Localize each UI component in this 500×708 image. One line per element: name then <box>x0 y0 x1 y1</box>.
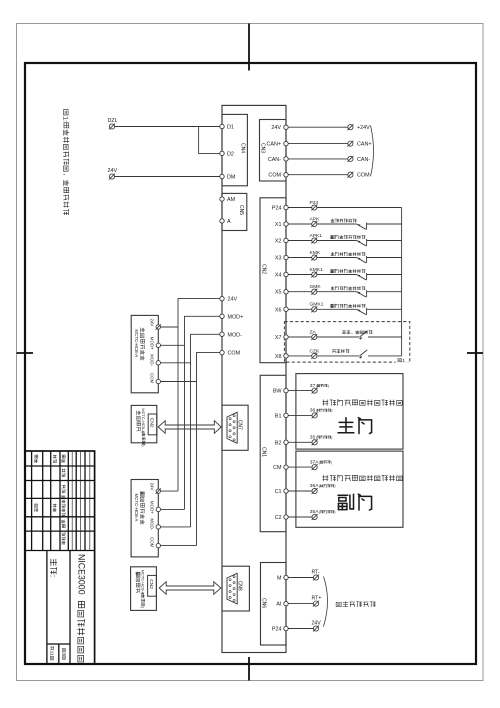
svg-text:CN8: CN8 <box>237 581 243 591</box>
connector CN4 <box>222 114 247 185</box>
svg-text:DZL: DZL <box>108 118 118 124</box>
terminal 24V on display1 <box>156 325 160 329</box>
terminal 36A <box>312 488 317 493</box>
terminal RT- <box>313 575 318 580</box>
connector CN6 <box>261 563 287 646</box>
pin X3 on CN2 <box>284 255 288 259</box>
connector CN5 <box>222 193 247 230</box>
switch name 安全触板开关 <box>331 219 334 222</box>
input common bus <box>401 208 403 356</box>
parallel board 2 (副操纵箱 MCTC-HCB-A) <box>131 567 157 611</box>
wire switch to bus <box>367 274 402 276</box>
svg-text:CN4: CN4 <box>239 143 245 153</box>
svg-text:B1: B1 <box>275 413 282 419</box>
svg-text:MCTC-HCB-A: MCTC-HCB-A <box>134 329 139 357</box>
terminal CZK <box>312 353 317 358</box>
svg-text:35A: 35A <box>310 509 319 515</box>
terminal 24V on display2 <box>156 489 160 493</box>
pin D2 on CN4 <box>220 151 224 155</box>
svg-text:KMK1: KMK1 <box>310 267 324 273</box>
aux door label 副门 <box>338 494 353 509</box>
svg-text:B2: B2 <box>275 440 282 446</box>
label 注1 <box>396 356 409 363</box>
svg-text:CAN-: CAN- <box>268 157 281 163</box>
wire display1 tap bus2 <box>161 344 185 346</box>
wire CM <box>288 466 312 468</box>
svg-text:MCTC-HCB-A: MCTC-HCB-A <box>134 494 139 522</box>
wire BW <box>288 390 312 392</box>
wire display1 tap bus1 <box>161 326 179 328</box>
switch ZA (NO) <box>360 331 368 337</box>
svg-text:24V: 24V <box>312 621 322 627</box>
note 1 vertical text <box>62 110 70 215</box>
svg-text:): ) <box>331 409 332 413</box>
wire to switch KMK <box>317 257 357 259</box>
sheet number 第3张 <box>61 648 66 659</box>
svg-text:): ) <box>331 460 332 464</box>
connector CN8 (DB9) <box>222 566 249 611</box>
wire X3 to terminal <box>288 257 312 259</box>
svg-text:36A: 36A <box>310 483 319 489</box>
svg-text:CAN-: CAN- <box>357 157 370 163</box>
wire X8 to terminal <box>288 355 312 357</box>
wire P24 to bus <box>317 207 402 209</box>
wire COM <box>288 174 348 176</box>
terminal ZA <box>312 334 317 339</box>
pin AI on CN6 <box>284 601 288 605</box>
drawing number label 图号 <box>49 559 58 577</box>
svg-text:AI: AI <box>276 602 281 608</box>
svg-text:24V: 24V <box>150 319 155 327</box>
svg-text:COM: COM <box>150 373 155 384</box>
pin BW on CN1 <box>284 388 288 392</box>
wire X7 to terminal <box>288 336 312 338</box>
wire switch to bus <box>368 336 402 338</box>
switch APK1 (NC) <box>357 241 366 246</box>
svg-text:CN2: CN2 <box>148 579 154 589</box>
wire display1 tap bus3 <box>161 362 191 364</box>
svg-text:ZA: ZA <box>310 329 317 335</box>
pin P24 on CN2 <box>284 205 288 209</box>
svg-text:X6: X6 <box>275 307 282 313</box>
wire to switch GMK <box>317 291 357 293</box>
switch name 满载、直驶开关 <box>342 330 345 333</box>
svg-text:COM: COM <box>357 173 370 179</box>
svg-text:D2: D2 <box>227 151 234 157</box>
connector CN1 <box>260 375 286 531</box>
svg-text:+24V: +24V <box>357 125 370 131</box>
pin AM on CN5 <box>220 197 224 201</box>
svg-text:37A: 37A <box>310 459 319 465</box>
display board 2 (副操纵箱显示 MCTC-HCB-A) <box>131 480 158 557</box>
sheet count 共11张 <box>49 646 54 659</box>
svg-text::: : <box>49 575 58 577</box>
title block revision grid <box>31 451 33 551</box>
svg-text:APK: APK <box>310 216 321 222</box>
svg-text:COM: COM <box>150 537 155 548</box>
switch name 超载开关 <box>332 350 335 353</box>
svg-text:BW: BW <box>273 389 283 395</box>
pin CAN+ on CN3 <box>284 141 288 145</box>
svg-text:P24: P24 <box>272 206 282 212</box>
svg-text:RT+: RT+ <box>312 596 322 602</box>
svg-text:C2: C2 <box>275 515 282 521</box>
svg-text:MCTC-HCB-A: MCTC-HCB-A <box>141 570 146 595</box>
main door caption <box>323 400 328 406</box>
wire M <box>288 577 313 579</box>
terminal RT+ <box>313 601 318 606</box>
pin X7 on CN2 <box>284 335 288 339</box>
pin 3 on display2 <box>156 543 160 547</box>
svg-text:1: 1 <box>402 358 405 364</box>
pin CAN- on CN3 <box>284 157 288 161</box>
pin P24 on CN6 <box>284 626 288 630</box>
pin 1 on display2 <box>156 507 160 511</box>
wire P24 <box>288 628 313 630</box>
pin X2 on CN2 <box>284 238 288 242</box>
switch name 主门开门限位开关 <box>331 252 335 255</box>
svg-text:): ) <box>334 484 335 488</box>
switch KMK1 (NC) <box>357 275 366 280</box>
connector CN3 <box>260 120 287 182</box>
pin D1 on CN4 <box>220 124 224 128</box>
svg-text:GMK: GMK <box>310 284 322 290</box>
wire CAN+ <box>288 143 348 145</box>
svg-text:X2: X2 <box>275 239 282 245</box>
wire X2 to terminal <box>288 240 312 242</box>
connector CN7 (DB9) <box>222 405 248 450</box>
pin 24V on board left <box>220 296 224 300</box>
terminal KMK <box>312 255 317 260</box>
svg-text:X3: X3 <box>275 256 282 262</box>
ribbon cable arrow CN2-CN8 <box>159 582 221 595</box>
svg-text:CM: CM <box>273 465 282 471</box>
wire branch to D2 <box>199 127 220 154</box>
svg-text:CN6: CN6 <box>261 598 267 608</box>
terminal 37 <box>312 388 317 393</box>
wire to switch APK <box>317 223 357 225</box>
pin CM on CN1 <box>284 465 288 469</box>
svg-text:24V: 24V <box>108 168 118 174</box>
svg-text:24V: 24V <box>228 297 238 303</box>
wire display2 tap bus4 <box>161 545 197 547</box>
svg-text:APK1: APK1 <box>310 233 323 239</box>
pin X6 on CN2 <box>284 307 288 311</box>
terminal KMK1 <box>312 272 317 277</box>
switch APK (NC) <box>357 224 366 229</box>
svg-text:D1: D1 <box>227 125 234 131</box>
pin X1 on CN2 <box>284 222 288 226</box>
title 轿顶板控制回路 <box>78 601 85 661</box>
parallel board 1 (主操纵箱 MCTC-HCB-A) <box>131 405 157 442</box>
terminal 24V (weighing) <box>109 174 114 179</box>
svg-text:KMK: KMK <box>310 250 321 256</box>
svg-text:M: M <box>277 576 282 582</box>
svg-text:): ) <box>334 510 335 514</box>
switch name 副门开门限位开关 <box>331 269 334 272</box>
bracket serial weighing <box>324 577 328 627</box>
wire bus4 to board <box>197 353 220 546</box>
terminal COM <box>348 172 353 177</box>
svg-text:35: 35 <box>310 435 316 441</box>
svg-text:P24: P24 <box>310 200 319 206</box>
pin MOD+ on board left <box>220 314 224 318</box>
terminal GMK1 <box>312 307 317 312</box>
svg-text:DM: DM <box>227 175 236 181</box>
title block outline <box>25 451 95 664</box>
wire P24 to terminal <box>288 207 312 209</box>
ribbon cable arrow CN2-CN7 <box>158 421 221 434</box>
svg-text:CN2: CN2 <box>261 264 267 274</box>
svg-text:X7: X7 <box>275 335 282 341</box>
pin COM on board left <box>220 350 224 354</box>
svg-text:C1: C1 <box>275 489 282 495</box>
svg-text:CZK: CZK <box>310 348 321 354</box>
svg-text:37: 37 <box>310 383 316 389</box>
svg-text:CN1: CN1 <box>261 447 267 457</box>
terminal APK <box>312 221 317 226</box>
svg-text:CAN+: CAN+ <box>357 142 372 148</box>
svg-text:MOD-: MOD- <box>150 518 155 530</box>
svg-text:24V: 24V <box>150 483 155 491</box>
wire switch to bus <box>367 291 402 293</box>
wire DZL to D1 <box>115 126 220 128</box>
pin B2 on CN1 <box>284 440 288 444</box>
svg-text:AM: AM <box>227 197 236 203</box>
svg-text:X5: X5 <box>275 290 282 296</box>
svg-text:MOD-: MOD- <box>228 332 243 338</box>
pin 24V on CN3 <box>284 125 288 129</box>
wire to switch KMK1 <box>317 274 357 276</box>
svg-text:3: 3 <box>61 653 66 656</box>
svg-text:X8: X8 <box>275 354 282 360</box>
svg-text:36: 36 <box>310 408 316 414</box>
terminal CAN- <box>348 156 353 161</box>
wire to switch CZK <box>317 355 359 357</box>
wire C1 <box>288 490 312 492</box>
pin 2 on display2 <box>156 525 160 529</box>
title NICE3000 <box>76 554 86 595</box>
pin B1 on CN1 <box>284 413 288 417</box>
bracket CAN group <box>371 126 374 177</box>
svg-text:CN3: CN3 <box>260 143 266 153</box>
switch name 主门关门限位开关 <box>331 286 335 289</box>
wire 24V to DM <box>115 176 220 178</box>
wire to switch APK1 <box>317 240 357 242</box>
svg-text:11: 11 <box>49 651 54 656</box>
svg-text:P24: P24 <box>272 627 282 633</box>
wire display2 tap bus1 <box>161 490 179 492</box>
wire to switch GMK1 <box>317 308 357 310</box>
terminal 24V <box>313 626 318 631</box>
wire bus1 to board <box>178 299 220 492</box>
pin X5 on CN2 <box>284 290 288 294</box>
pin A on CN5 <box>220 219 224 223</box>
wire switch to bus <box>367 308 402 310</box>
switch name 副门安全触板开关 <box>331 235 334 238</box>
terminal CAN+ <box>348 141 353 146</box>
wire switch to bus <box>368 355 402 357</box>
svg-text:): ) <box>328 384 329 388</box>
pin X8 on CN2 <box>284 354 288 358</box>
pin C1 on CN1 <box>284 489 288 493</box>
switch GMK1 (NC) <box>357 309 366 314</box>
pin MOD- on board left <box>220 332 224 336</box>
wire B1 <box>288 414 312 416</box>
wire display2 tap bus2 <box>161 508 185 510</box>
wire CAN- <box>288 158 348 160</box>
dashed option box (note1) <box>284 322 409 363</box>
terminal 35A <box>312 514 317 519</box>
svg-text:RT-: RT- <box>312 570 321 576</box>
svg-text:NICE3000: NICE3000 <box>76 554 86 595</box>
wire to switch ZA <box>317 336 359 338</box>
switch KMK (NC) <box>357 258 366 263</box>
aux door caption <box>323 475 328 481</box>
terminal GMK <box>312 289 317 294</box>
svg-text:COM: COM <box>268 173 281 179</box>
switch CZK (NO) <box>360 350 368 356</box>
svg-text:A: A <box>227 219 231 225</box>
wire C2 <box>288 516 312 518</box>
terminal 35 <box>312 440 317 445</box>
svg-text:X1: X1 <box>275 222 282 228</box>
svg-text:CAN+: CAN+ <box>266 142 281 148</box>
pin C2 on CN1 <box>284 515 288 519</box>
wire X6 to terminal <box>288 308 312 310</box>
terminal 37A <box>312 465 317 470</box>
wire X5 to terminal <box>288 291 312 293</box>
svg-text:MOD+: MOD+ <box>228 314 244 320</box>
svg-text:MOD+: MOD+ <box>150 501 155 514</box>
wire display2 tap bus3 <box>161 526 191 528</box>
wire B2 <box>288 441 312 443</box>
pin M on CN6 <box>284 575 288 579</box>
pin 1 on display1 <box>156 343 160 347</box>
switch GMK (NC) <box>357 292 366 297</box>
pin 2 on display1 <box>156 361 160 365</box>
display board 1 (主操纵箱显示 MCTC-HCB-A) <box>131 315 158 392</box>
main door box <box>296 374 403 450</box>
connector CN2 <box>260 198 286 363</box>
pin 3 on display1 <box>156 379 160 383</box>
svg-text:): ) <box>331 436 332 440</box>
wire bus3 to board <box>191 334 220 527</box>
svg-text:COM: COM <box>228 351 241 357</box>
wire switch to bus <box>367 223 402 225</box>
aux door box <box>296 451 403 527</box>
svg-text:GMK1: GMK1 <box>310 302 324 308</box>
wire X1 to terminal <box>288 223 312 225</box>
svg-text:MOD+: MOD+ <box>150 337 155 350</box>
label 串行称重通讯 <box>336 602 341 606</box>
wire display1 tap bus4 <box>161 381 197 383</box>
title block dividers <box>46 551 48 665</box>
switch name 副门关门限位开关 <box>331 304 334 307</box>
wire switch to bus <box>367 240 402 242</box>
wire bus2 to board <box>185 316 220 509</box>
terminal P24 <box>312 205 317 210</box>
svg-text:CN5: CN5 <box>238 205 244 215</box>
svg-text:MCTC-HCB-A: MCTC-HCB-A <box>141 408 146 433</box>
svg-text:CN7: CN7 <box>237 420 243 430</box>
svg-text:MOD-: MOD- <box>150 354 155 366</box>
terminal +24V <box>348 125 353 130</box>
svg-text:CN2: CN2 <box>149 418 155 428</box>
pin DM on CN4 <box>220 174 224 178</box>
title block small field labels <box>35 455 38 463</box>
pin COM on CN3 <box>284 173 288 177</box>
wire X4 to terminal <box>288 274 312 276</box>
terminal DZL <box>109 124 114 129</box>
terminal APK1 <box>312 238 317 243</box>
wire switch to bus <box>367 257 402 259</box>
wire 24V <box>288 126 348 128</box>
svg-text:X4: X4 <box>275 273 282 279</box>
svg-text:24V: 24V <box>271 125 281 131</box>
svg-text:1:: 1: <box>62 116 69 122</box>
pin X4 on CN2 <box>284 272 288 276</box>
controller board MCTC-CTB outline <box>222 105 286 652</box>
wire AI <box>288 603 313 605</box>
main door label 主门 <box>338 418 354 433</box>
terminal 36 <box>312 413 317 418</box>
